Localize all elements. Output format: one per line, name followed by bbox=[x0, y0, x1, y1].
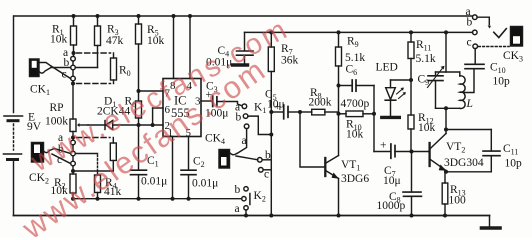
svg-text:100: 100 bbox=[449, 195, 467, 207]
svg-text:a: a bbox=[235, 203, 240, 215]
wire CK4 c to column bbox=[263, 169, 271, 171]
resistor R12 bbox=[408, 80, 414, 152]
node c CK3 bbox=[473, 44, 478, 49]
wire V+ second rail bbox=[245, 31, 473, 33]
watermark www.elecfans.com lower bbox=[15, 51, 272, 240]
svg-text:0.01μ: 0.01μ bbox=[141, 176, 167, 188]
wire bottom rail bbox=[14, 215, 490, 217]
svg-text:b: b bbox=[467, 17, 473, 29]
svg-text:47k: 47k bbox=[106, 35, 124, 47]
wire right column C6 R10 bbox=[373, 86, 375, 152]
capacitor C7 bbox=[374, 144, 428, 158]
op-amp U1 IC 555 box bbox=[163, 79, 201, 137]
variable capacitor C9 bbox=[428, 66, 445, 109]
relay contact K2 pole bbox=[242, 197, 246, 201]
wire dashed RP junction to lower resistor bbox=[77, 137, 111, 139]
svg-text:3DG304: 3DG304 bbox=[444, 157, 484, 169]
svg-text:c: c bbox=[62, 69, 67, 81]
svg-text:L: L bbox=[466, 98, 473, 110]
svg-text:10p: 10p bbox=[493, 76, 511, 88]
relay contact K2 node a bbox=[244, 206, 248, 210]
resistor R2 bbox=[70, 171, 76, 199]
relay contact K1 pole bbox=[244, 124, 249, 129]
wire VT1 base column bbox=[300, 112, 324, 167]
wire K2 a to ground rail bbox=[245, 210, 247, 216]
wire top rail bbox=[14, 15, 473, 17]
svg-text:5.1k: 5.1k bbox=[416, 53, 436, 65]
resistor R7 bbox=[268, 32, 274, 215]
wire c to RP bbox=[72, 84, 74, 120]
capacitor C8 bbox=[403, 152, 422, 216]
ground bottom right bbox=[482, 226, 501, 230]
capacitor C1 bbox=[131, 125, 147, 199]
node c CK4 bbox=[259, 168, 264, 173]
transistor Q1 VT1 bbox=[325, 114, 339, 216]
wire 555 pin8 to rail bbox=[173, 16, 175, 79]
wire K1 pole down to CK4 bbox=[237, 129, 247, 154]
capacitor C11 bbox=[483, 130, 500, 172]
resistor R11 bbox=[408, 32, 414, 80]
node a CK3 bbox=[473, 15, 478, 20]
wire contacts column CK2 bbox=[72, 138, 74, 172]
jack CK2 bbox=[32, 143, 71, 164]
jack CK3 plug bbox=[494, 29, 507, 38]
wire CK4 b to column bbox=[262, 159, 271, 161]
svg-text:LED: LED bbox=[376, 62, 398, 74]
svg-text:9V: 9V bbox=[27, 121, 42, 133]
wire tank bottom bbox=[436, 107, 460, 109]
wire contacts column CK1 bbox=[72, 61, 74, 84]
svg-text:+: + bbox=[380, 140, 387, 152]
svg-text:10k: 10k bbox=[147, 35, 165, 47]
capacitor C6 bbox=[339, 80, 375, 91]
svg-text:36k: 36k bbox=[281, 55, 299, 67]
resistor R13 bbox=[442, 172, 448, 216]
node b CK4 bbox=[258, 158, 263, 163]
wire dotted b CK2 down bbox=[97, 155, 99, 170]
wire K2 lever bar bbox=[249, 194, 251, 205]
svg-text:1000p: 1000p bbox=[377, 200, 406, 212]
node c CK1 bbox=[71, 76, 76, 81]
potentiometer RP bbox=[70, 119, 88, 138]
wire tank to VT2 collector bbox=[445, 108, 447, 129]
wire CK3 lever bbox=[477, 17, 491, 28]
LED bbox=[385, 80, 411, 116]
svg-text:a: a bbox=[242, 135, 247, 147]
svg-text:4700p: 4700p bbox=[341, 98, 370, 110]
resistor unlabeled lower bbox=[110, 138, 116, 172]
svg-text:10p: 10p bbox=[505, 158, 523, 170]
svg-text:10k: 10k bbox=[418, 122, 436, 134]
svg-text:3DG6: 3DG6 bbox=[341, 173, 369, 185]
relay contact K1 node a bbox=[242, 104, 247, 109]
wire node under CK2 bbox=[73, 170, 113, 172]
svg-text:b: b bbox=[235, 184, 241, 196]
wire pin3 bbox=[201, 100, 213, 102]
capacitor C5 bbox=[271, 105, 300, 119]
svg-text:5.1k: 5.1k bbox=[345, 52, 365, 64]
svg-text:+: + bbox=[275, 101, 282, 113]
wire tank top bbox=[436, 32, 460, 72]
capacitor C2 bbox=[181, 170, 196, 199]
svg-text:c: c bbox=[467, 37, 472, 49]
svg-text:b: b bbox=[236, 112, 242, 124]
capacitor C4 bbox=[237, 32, 254, 63]
wire b CK2 bbox=[76, 153, 98, 155]
battery E 9V bbox=[4, 116, 23, 216]
resistor R8 bbox=[300, 109, 339, 115]
wire b to R3 bbox=[76, 67, 98, 69]
wire dotted CK3 c bbox=[479, 46, 510, 48]
wire K1 b to column bbox=[248, 116, 271, 134]
wire pin1 bbox=[172, 137, 174, 199]
capacitor C3 bbox=[213, 96, 242, 107]
wire ground rail mid bbox=[73, 198, 242, 200]
wire pin7 bbox=[139, 90, 164, 92]
resistor R6 bbox=[136, 91, 142, 125]
node b CK2 bbox=[71, 151, 76, 156]
resistor R9 bbox=[336, 32, 342, 113]
wire dashed c to R0 bbox=[77, 83, 111, 85]
node a CK2 bbox=[71, 140, 76, 145]
svg-text:100k: 100k bbox=[45, 116, 68, 128]
node b CK1 bbox=[71, 65, 76, 70]
wire emitter node bbox=[446, 171, 491, 173]
jack CK1 bbox=[30, 59, 71, 79]
svg-text:c: c bbox=[264, 169, 269, 181]
jack CK4 bbox=[219, 150, 258, 169]
resistor R5 bbox=[136, 16, 142, 91]
svg-text:0.01μ: 0.01μ bbox=[192, 178, 218, 190]
relay contact K1 node b bbox=[243, 114, 248, 119]
ground under C4 bbox=[233, 63, 248, 66]
node c CK2 bbox=[71, 161, 76, 166]
ground under LED bbox=[382, 116, 400, 119]
resistor R10 bbox=[339, 111, 375, 117]
watermark www.elecfans.com upper bbox=[25, 13, 294, 179]
resistor R4 bbox=[95, 171, 101, 199]
wire 555 pin4 to rail bbox=[189, 16, 191, 79]
svg-text:200k: 200k bbox=[309, 97, 332, 109]
node b CK3 bbox=[473, 30, 478, 35]
resistor R0 bbox=[111, 53, 117, 84]
node a CK1 bbox=[71, 56, 76, 61]
wire pin6 bbox=[153, 108, 163, 125]
wire left edge bbox=[13, 16, 15, 113]
resistor R3 bbox=[95, 16, 101, 68]
relay contact K2 node b bbox=[244, 187, 248, 191]
capacitor C10 bbox=[464, 49, 484, 93]
svg-text:10k: 10k bbox=[346, 129, 364, 141]
jack CK3 bbox=[511, 27, 523, 47]
resistor R1 bbox=[71, 16, 77, 56]
svg-text:RP: RP bbox=[50, 102, 64, 114]
inductor L bbox=[460, 72, 465, 109]
diode D1 2CK44 bbox=[88, 121, 163, 130]
svg-text:10k: 10k bbox=[50, 34, 68, 46]
wire dashed a to R0 bbox=[77, 52, 111, 54]
svg-text:b: b bbox=[265, 150, 271, 162]
transistor Q2 VT2 bbox=[428, 130, 446, 172]
wire collector to C11 bbox=[446, 129, 491, 131]
wire pin5 bbox=[188, 137, 190, 171]
svg-text:10μ: 10μ bbox=[383, 175, 401, 187]
svg-text:b: b bbox=[64, 57, 70, 69]
